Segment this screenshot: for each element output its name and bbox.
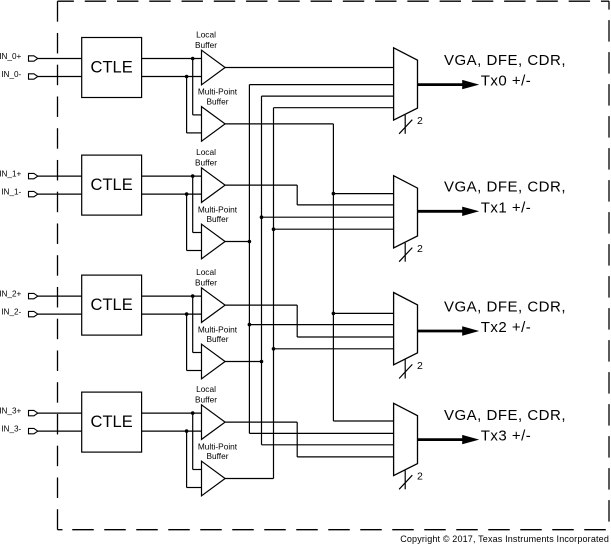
svg-text:VGA, DFE, CDR,: VGA, DFE, CDR, [444,298,566,315]
svg-text:Buffer: Buffer [195,395,217,405]
svg-text:Copyright © 2017, Texas Instru: Copyright © 2017, Texas Instruments Inco… [400,534,609,544]
svg-text:IN_1-: IN_1- [1,187,21,196]
svg-text:Buffer: Buffer [195,278,217,288]
svg-text:Local: Local [196,147,216,157]
svg-text:IN_2+: IN_2+ [0,289,22,298]
svg-text:Buffer: Buffer [195,40,217,50]
svg-text:2: 2 [417,471,423,483]
svg-text:Multi-Point: Multi-Point [198,324,238,334]
svg-text:2: 2 [417,360,423,372]
svg-text:Buffer: Buffer [207,214,229,224]
svg-text:VGA, DFE, CDR,: VGA, DFE, CDR, [444,52,566,69]
svg-text:Buffer: Buffer [195,158,217,168]
svg-text:CTLE: CTLE [91,58,133,76]
svg-text:2: 2 [417,115,423,127]
svg-text:IN_1+: IN_1+ [0,169,22,178]
svg-text:IN_3+: IN_3+ [0,406,22,415]
svg-text:Tx3 +/-: Tx3 +/- [481,428,532,445]
svg-text:Multi-Point: Multi-Point [198,87,238,97]
svg-text:Local: Local [196,267,216,277]
svg-text:IN_0-: IN_0- [1,70,21,79]
svg-text:Buffer: Buffer [207,334,229,344]
svg-text:Buffer: Buffer [207,97,229,107]
svg-text:VGA, DFE, CDR,: VGA, DFE, CDR, [444,407,566,424]
svg-text:Local: Local [196,384,216,394]
svg-text:Local: Local [196,30,216,40]
svg-text:2: 2 [417,243,423,255]
svg-text:CTLE: CTLE [91,296,133,314]
svg-text:Tx0 +/-: Tx0 +/- [481,73,532,90]
svg-text:IN_2-: IN_2- [1,307,21,316]
svg-text:Multi-Point: Multi-Point [198,441,238,451]
svg-text:Buffer: Buffer [207,451,229,461]
svg-text:IN_0+: IN_0+ [0,52,22,61]
svg-text:Multi-Point: Multi-Point [198,204,238,214]
svg-text:CTLE: CTLE [91,413,133,431]
svg-text:Tx1 +/-: Tx1 +/- [481,199,532,216]
svg-text:IN_3-: IN_3- [1,424,21,433]
svg-text:Tx2 +/-: Tx2 +/- [481,319,532,336]
svg-text:VGA, DFE, CDR,: VGA, DFE, CDR, [444,179,566,196]
svg-text:CTLE: CTLE [91,176,133,194]
